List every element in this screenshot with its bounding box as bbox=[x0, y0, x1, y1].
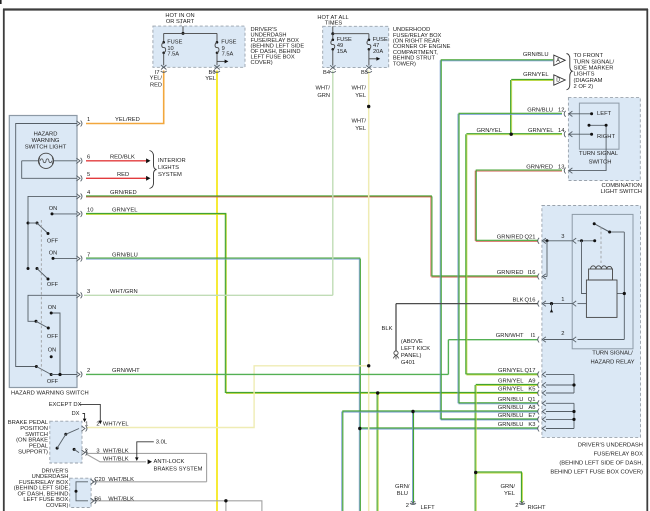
svg-text:GRN/RED: GRN/RED bbox=[110, 190, 137, 196]
svg-text:BLU: BLU bbox=[397, 491, 408, 497]
svg-text:1: 1 bbox=[561, 297, 564, 303]
svg-text:47: 47 bbox=[373, 43, 379, 49]
svg-text:OFF: OFF bbox=[47, 334, 59, 340]
svg-text:ON: ON bbox=[49, 250, 57, 256]
svg-text:GRN/BLU: GRN/BLU bbox=[112, 252, 138, 258]
svg-text:TIMES: TIMES bbox=[325, 20, 343, 26]
svg-text:15A: 15A bbox=[337, 49, 347, 55]
svg-text:LEFT KICK: LEFT KICK bbox=[401, 346, 430, 352]
svg-text:SWITCH LIGHT: SWITCH LIGHT bbox=[25, 145, 67, 151]
svg-text:OFF: OFF bbox=[47, 379, 59, 385]
svg-text:DRIVER'S UNDERDASH: DRIVER'S UNDERDASH bbox=[578, 442, 643, 448]
svg-text:7.5A: 7.5A bbox=[222, 51, 234, 57]
svg-text:12: 12 bbox=[558, 108, 564, 114]
svg-text:FUSE: FUSE bbox=[373, 37, 388, 43]
svg-text:GRN/YEL: GRN/YEL bbox=[528, 128, 554, 134]
svg-text:WARNING: WARNING bbox=[32, 138, 60, 144]
svg-text:RED/BLK: RED/BLK bbox=[110, 155, 135, 161]
svg-text:HAZARD WARNING SWITCH: HAZARD WARNING SWITCH bbox=[11, 391, 89, 397]
svg-text:TURN SIGNAL/: TURN SIGNAL/ bbox=[592, 351, 633, 357]
svg-text:LIGHTS: LIGHTS bbox=[158, 165, 179, 171]
svg-text:20A: 20A bbox=[373, 49, 383, 55]
svg-text:RED: RED bbox=[117, 172, 129, 178]
svg-text:LIGHT SWITCH: LIGHT SWITCH bbox=[601, 189, 642, 195]
svg-text:YEL: YEL bbox=[355, 126, 366, 132]
svg-text:GRN/YEL: GRN/YEL bbox=[477, 128, 503, 134]
svg-text:TURN SIGNAL: TURN SIGNAL bbox=[579, 151, 619, 157]
svg-text:Q1: Q1 bbox=[528, 397, 536, 403]
svg-text:BLK: BLK bbox=[382, 326, 393, 332]
svg-text:I1: I1 bbox=[531, 333, 536, 339]
svg-text:COVER): COVER) bbox=[251, 60, 273, 66]
svg-text:FUSE/RELAY BOX: FUSE/RELAY BOX bbox=[594, 451, 644, 457]
svg-text:2: 2 bbox=[561, 331, 564, 337]
svg-text:GRN/WHT: GRN/WHT bbox=[112, 368, 140, 374]
svg-text:10: 10 bbox=[87, 208, 93, 214]
svg-text:WHT/BLK: WHT/BLK bbox=[108, 477, 134, 483]
svg-text:14: 14 bbox=[558, 128, 565, 134]
svg-text:A: A bbox=[556, 58, 560, 64]
svg-text:K5: K5 bbox=[528, 387, 535, 393]
svg-text:ON: ON bbox=[48, 305, 56, 311]
svg-text:(BEHIND LEFT SIDE OF DASH,: (BEHIND LEFT SIDE OF DASH, bbox=[559, 460, 643, 466]
svg-text:EXCEPT DX: EXCEPT DX bbox=[49, 402, 82, 408]
svg-text:A9: A9 bbox=[528, 379, 535, 385]
svg-text:GRN/YEL: GRN/YEL bbox=[498, 387, 524, 393]
svg-text:3: 3 bbox=[561, 234, 564, 240]
svg-text:13: 13 bbox=[558, 164, 564, 170]
svg-text:DX: DX bbox=[72, 411, 80, 417]
svg-text:SYSTEM: SYSTEM bbox=[158, 172, 182, 178]
svg-text:ON: ON bbox=[49, 206, 57, 212]
svg-text:RIGHT: RIGHT bbox=[597, 134, 615, 140]
svg-text:GRN/YEL: GRN/YEL bbox=[112, 208, 138, 214]
svg-text:GRN/RED: GRN/RED bbox=[497, 270, 524, 276]
svg-text:GRN/BLU: GRN/BLU bbox=[523, 52, 549, 58]
svg-text:BEHIND LEFT FUSE BOX COVER): BEHIND LEFT FUSE BOX COVER) bbox=[550, 469, 643, 475]
svg-text:TO FRONT: TO FRONT bbox=[574, 53, 604, 59]
svg-text:OFF: OFF bbox=[47, 282, 59, 288]
svg-text:ON: ON bbox=[48, 348, 56, 354]
svg-text:WHT/: WHT/ bbox=[351, 119, 366, 125]
svg-text:TURN SIGNAL/: TURN SIGNAL/ bbox=[574, 59, 615, 65]
svg-text:K3: K3 bbox=[528, 422, 535, 428]
svg-text:6: 6 bbox=[87, 155, 90, 161]
svg-text:B6: B6 bbox=[209, 70, 216, 76]
svg-text:YEL: YEL bbox=[205, 76, 216, 82]
svg-text:YEL: YEL bbox=[355, 93, 366, 99]
svg-text:GRN/RED: GRN/RED bbox=[526, 164, 553, 170]
svg-text:B6: B6 bbox=[94, 497, 101, 503]
svg-text:4: 4 bbox=[87, 190, 91, 196]
svg-text:COVER): COVER) bbox=[46, 503, 69, 509]
svg-text:WHT/BLK: WHT/BLK bbox=[103, 448, 129, 454]
svg-text:WHT/BLK: WHT/BLK bbox=[108, 497, 134, 503]
svg-text:B4: B4 bbox=[323, 70, 330, 76]
svg-text:OFF: OFF bbox=[47, 238, 59, 244]
svg-text:INTERIOR: INTERIOR bbox=[158, 158, 186, 164]
svg-text:WHT/BLK: WHT/BLK bbox=[103, 457, 129, 463]
svg-text:WHT/: WHT/ bbox=[315, 86, 330, 92]
svg-text:FUSE: FUSE bbox=[337, 37, 352, 43]
svg-text:BLK: BLK bbox=[513, 297, 524, 303]
svg-text:3: 3 bbox=[87, 289, 90, 295]
svg-text:Q16: Q16 bbox=[525, 297, 536, 303]
svg-text:7.5A: 7.5A bbox=[167, 51, 179, 57]
svg-text:GRN/BLU: GRN/BLU bbox=[498, 405, 524, 411]
svg-text:3: 3 bbox=[96, 448, 99, 454]
svg-text:TOWER): TOWER) bbox=[393, 61, 416, 67]
svg-text:GRN/RED: GRN/RED bbox=[497, 235, 524, 241]
svg-text:GRN/BLU: GRN/BLU bbox=[498, 397, 524, 403]
svg-text:2: 2 bbox=[85, 448, 88, 454]
svg-text:LIGHTS: LIGHTS bbox=[574, 72, 595, 78]
svg-text:2: 2 bbox=[87, 368, 90, 374]
svg-text:YEL/: YEL/ bbox=[150, 76, 163, 82]
svg-text:SIDE MARKER: SIDE MARKER bbox=[574, 66, 614, 72]
svg-text:WHT/: WHT/ bbox=[351, 86, 366, 92]
svg-text:2 OF 2): 2 OF 2) bbox=[574, 84, 594, 90]
svg-text:SWITCH: SWITCH bbox=[589, 160, 612, 166]
svg-text:GRN/YEL: GRN/YEL bbox=[498, 379, 524, 385]
svg-text:2: 2 bbox=[96, 422, 99, 428]
svg-text:Q17: Q17 bbox=[525, 368, 536, 374]
svg-text:OR START: OR START bbox=[166, 19, 195, 25]
svg-text:GRN/YEL: GRN/YEL bbox=[523, 72, 549, 78]
svg-text:HAZARD: HAZARD bbox=[34, 132, 58, 138]
svg-text:GRN/WHT: GRN/WHT bbox=[496, 333, 524, 339]
svg-text:1: 1 bbox=[85, 422, 88, 428]
svg-text:49: 49 bbox=[337, 43, 343, 49]
svg-text:C20: C20 bbox=[94, 477, 105, 483]
svg-text:YEL/RED: YEL/RED bbox=[115, 117, 140, 123]
svg-text:WHT/GRN: WHT/GRN bbox=[110, 289, 138, 295]
svg-text:FUSE: FUSE bbox=[167, 39, 182, 45]
svg-text:E7: E7 bbox=[528, 413, 535, 419]
svg-text:GRN: GRN bbox=[317, 93, 330, 99]
svg-text:SUPPORT): SUPPORT) bbox=[18, 450, 48, 456]
svg-text:A8: A8 bbox=[528, 405, 535, 411]
svg-text:2: 2 bbox=[406, 503, 409, 509]
svg-text:D: D bbox=[556, 78, 560, 84]
svg-text:YEL: YEL bbox=[504, 491, 516, 497]
svg-text:GRN/: GRN/ bbox=[395, 484, 410, 490]
svg-text:G401: G401 bbox=[401, 360, 415, 366]
svg-text:HAZARD RELAY: HAZARD RELAY bbox=[590, 360, 634, 366]
svg-text:GRN/: GRN/ bbox=[501, 484, 516, 490]
svg-text:LEFT: LEFT bbox=[421, 505, 436, 511]
svg-text:(DIAGRAM: (DIAGRAM bbox=[574, 78, 603, 84]
svg-text:GRN/BLU: GRN/BLU bbox=[498, 422, 524, 428]
svg-text:FUSE: FUSE bbox=[221, 39, 236, 45]
svg-text:WHT/YEL: WHT/YEL bbox=[103, 422, 130, 428]
svg-text:BRAKES SYSTEM: BRAKES SYSTEM bbox=[154, 466, 203, 472]
svg-text:7: 7 bbox=[87, 252, 90, 258]
svg-text:GRN/BLU: GRN/BLU bbox=[527, 108, 553, 114]
svg-text:2: 2 bbox=[515, 503, 518, 509]
svg-text:3.0L: 3.0L bbox=[156, 439, 168, 445]
svg-text:(ABOVE: (ABOVE bbox=[401, 339, 423, 345]
svg-text:5: 5 bbox=[87, 172, 90, 178]
svg-text:PANEL): PANEL) bbox=[401, 353, 422, 359]
svg-text:ANTI-LOCK: ANTI-LOCK bbox=[154, 459, 185, 465]
svg-text:RIGHT: RIGHT bbox=[528, 505, 546, 511]
svg-text:RED: RED bbox=[150, 83, 162, 89]
svg-text:Q21: Q21 bbox=[525, 235, 536, 241]
svg-text:1: 1 bbox=[87, 117, 90, 123]
svg-text:LEFT: LEFT bbox=[597, 111, 612, 117]
svg-text:B5: B5 bbox=[361, 70, 368, 76]
svg-text:I16: I16 bbox=[527, 270, 535, 276]
svg-text:GRN/YEL: GRN/YEL bbox=[498, 368, 524, 374]
svg-text:GRN/BLU: GRN/BLU bbox=[498, 413, 524, 419]
